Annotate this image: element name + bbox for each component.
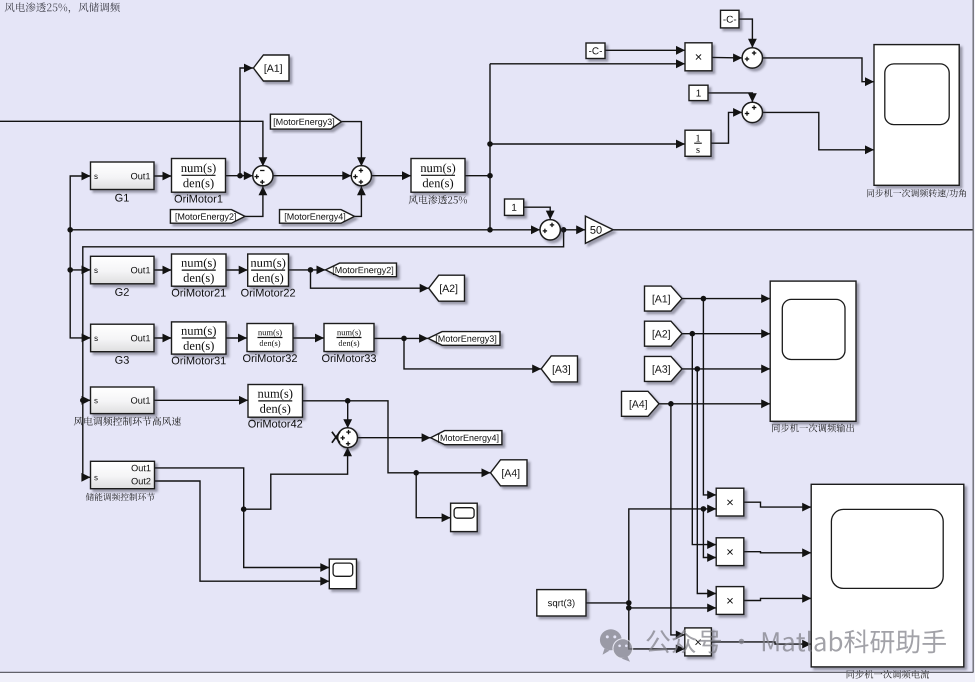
wire: sqrt3 branch up to multiplier M1 <box>629 505 716 603</box>
wire: sum S1 to sum S2 <box>273 171 351 180</box>
sum S2 <box>351 166 371 186</box>
wire: OriMotor33 to goto MotorEnergy3 <box>374 334 428 343</box>
from tag MotorEnergy3 <box>270 114 341 129</box>
from tag A1 <box>645 286 683 311</box>
wire: branch to G3 input <box>70 270 90 342</box>
from tag A3 <box>645 356 683 381</box>
wire: constant 1 into sum SB top <box>708 93 757 102</box>
scope sync machine primary speed and angle <box>867 45 966 198</box>
sum S3 <box>540 220 560 240</box>
wire: sum S3 to gain 50 <box>561 225 586 234</box>
transfer fcn OriMotor31 <box>172 322 227 365</box>
wire: A4 branch down to multiplier M4 <box>671 404 685 640</box>
sum SB <box>742 102 762 122</box>
wire: branch down to goto A3 <box>404 338 541 373</box>
wire: frequency net vertical <box>487 64 493 233</box>
wire: transfer fcn output to frequency net <box>465 173 493 179</box>
wire: branch down to goto A2 <box>311 270 429 293</box>
from tag A2 <box>645 321 683 346</box>
transfer fcn OriMotor32 <box>243 324 297 363</box>
goto tag A4 <box>491 460 528 486</box>
wire: from A2 to output scope <box>682 329 770 338</box>
wire: from A3 to output scope <box>682 365 770 374</box>
from tag A4 <box>622 391 660 416</box>
wire: from MotorEnergy3 into sum S2 top <box>342 122 366 167</box>
subsystem G3 <box>91 324 154 364</box>
wire: from A4 to output scope <box>659 399 770 408</box>
subsystem energy storage frequency control <box>86 461 155 501</box>
title text wind penetration 25 percent wind storage frequency regulation <box>5 2 120 13</box>
wire: sqrt3 output <box>586 600 632 611</box>
wire: OriMotor21 to OriMotor22 <box>226 266 248 275</box>
wire: storage Out2 to small scope 2 input 2 <box>155 481 330 586</box>
multiplier M3 <box>716 587 744 615</box>
wire: OriMotor42 output routed to goto A4 <box>303 398 491 477</box>
wire: sum S2 to wind penetration transfer fcn <box>372 171 412 180</box>
sum S4 with unconnected left port <box>332 428 358 448</box>
goto tag A2 <box>429 275 465 301</box>
wire: sum S4 to goto MotorEnergy4 <box>358 433 431 442</box>
integrator 1/s <box>685 130 711 156</box>
wire: OriMotor31 to OriMotor32 <box>226 334 247 343</box>
wire: G1 to OriMotor1 <box>154 172 172 181</box>
wire: governor bus vertical to G1 input <box>67 172 90 233</box>
wire: branch into wind controller input <box>82 396 91 405</box>
goto tag MotorEnergy3 <box>428 332 500 346</box>
multiplier M2 <box>716 538 744 566</box>
goto tag A3 <box>541 356 577 382</box>
scope sync machine primary frequency current <box>811 484 964 678</box>
sum SA <box>742 48 762 68</box>
from tag MotorEnergy2 <box>170 210 245 224</box>
constant 1 mid <box>505 199 524 215</box>
subsystem wind frequency control high wind speed <box>74 387 181 426</box>
subsystem G2 <box>91 256 155 296</box>
wire: storage Out1 branch to small scope 2 input 1 <box>244 509 330 572</box>
subsystem G1 <box>91 162 155 202</box>
wire: constant 1 into sum S3 top <box>524 207 555 219</box>
wire: multiplier M3 to current scope <box>744 594 811 603</box>
wire: sqrt3 to multiplier M3 <box>629 603 716 612</box>
wire: net to product P1 lower input <box>490 59 685 68</box>
wire: long frequency line to governors and sum S3 <box>70 225 540 234</box>
sum S1 <box>253 166 273 186</box>
wire: multiplier M1 to current scope <box>744 502 811 511</box>
wire: branch up to goto A1 <box>240 64 253 176</box>
wire: multiplier M2 to current scope <box>744 548 811 557</box>
wire: G2 to OriMotor21 <box>154 266 172 275</box>
constant -C- 2 <box>721 10 740 28</box>
wire: branch to G2 input <box>67 230 90 274</box>
constant -C- <box>586 43 605 59</box>
wire: storage Out1 routed up into sum S4 bottom <box>155 447 353 512</box>
wire: G3 to OriMotor31 <box>154 334 172 343</box>
transfer fcn wind penetration 25 percent <box>409 159 467 205</box>
wire: from MotorEnergy2 up into sum S1 bottom <box>245 186 267 216</box>
wire: gain 50 output to canvas edge <box>613 229 973 231</box>
wire: integrator to sum SB <box>711 108 742 143</box>
goto tag MotorEnergy4 <box>431 431 502 445</box>
wire: product P1 to sum SA <box>712 54 742 63</box>
wire: sqrt3 branch down to multiplier M2 <box>703 509 716 562</box>
scope small display 2 <box>329 559 356 589</box>
wire: multiplier M4 to current scope <box>711 640 811 649</box>
constant 1 upper <box>689 85 708 100</box>
wire: OriMotor1 to sum S1 <box>226 171 253 180</box>
wire: from MotorEnergy4 up into sum S2 bottom <box>355 186 366 216</box>
transfer fcn OriMotor33 <box>322 324 376 363</box>
wire: branch down into sum S4 top <box>343 401 352 428</box>
wire: sum S3 branch back to wind and storage controllers <box>80 230 564 482</box>
wire: sum SB to speed scope input 2 <box>763 112 874 154</box>
multiplier M4 <box>685 628 712 656</box>
wire: wind controller to OriMotor42 <box>154 396 248 405</box>
multiplier M1 <box>716 488 744 516</box>
product block P1 <box>685 43 712 71</box>
goto tag MotorEnergy2 <box>326 263 397 277</box>
transfer fcn OriMotor42 <box>248 385 303 428</box>
transfer fcn OriMotor1 <box>172 159 226 203</box>
gain 50 <box>585 216 613 243</box>
wire: OriMotor22 to goto MotorEnergy2 <box>289 266 326 275</box>
wire: net to integrator input <box>490 140 685 149</box>
wire: A1 branch down to multiplier M1 <box>703 299 716 500</box>
wire: frequency feedback entering from left into sum S1 top <box>0 121 267 166</box>
wire: A2 branch down to multiplier M2 <box>692 334 716 549</box>
wire: constant -C- to product P1 <box>605 46 685 55</box>
wire: sum SA to speed scope input 1 <box>763 58 874 86</box>
wire: A3 branch down to multiplier M3 <box>697 369 716 598</box>
watermark wechat logo and text <box>600 629 946 662</box>
wire: branch down to small scope 1 <box>416 473 450 522</box>
goto tag A1 <box>253 55 289 81</box>
wire: constant -C- 2 down into sum SA top <box>739 19 757 48</box>
wire: sqrt3 branch down to multiplier M4 <box>629 608 685 653</box>
constant sqrt(3) <box>537 590 586 616</box>
wire: OriMotor32 to OriMotor33 <box>293 334 324 343</box>
scope sync machine primary frequency output <box>770 281 856 432</box>
scope small display 1 <box>451 503 478 531</box>
transfer fcn OriMotor22 <box>241 254 295 297</box>
transfer fcn OriMotor21 <box>172 254 227 297</box>
from tag MotorEnergy4 <box>280 210 355 224</box>
wire: from A1 to output scope <box>682 294 770 303</box>
